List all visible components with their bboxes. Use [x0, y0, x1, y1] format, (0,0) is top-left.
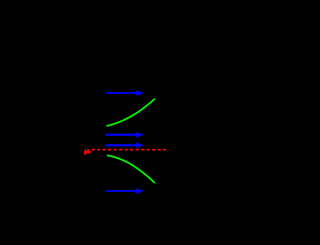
- flow arrow top: [106, 90, 144, 96]
- centerline (red dashed axis): [92, 149, 168, 151]
- flow arrow upper-middle: [106, 132, 144, 138]
- flow arrow lower-middle: [106, 143, 144, 149]
- upper boundary curve: [106, 99, 154, 126]
- flow arrow bottom: [106, 188, 144, 194]
- label mu: [84, 149, 91, 155]
- lower boundary curve: [107, 155, 155, 183]
